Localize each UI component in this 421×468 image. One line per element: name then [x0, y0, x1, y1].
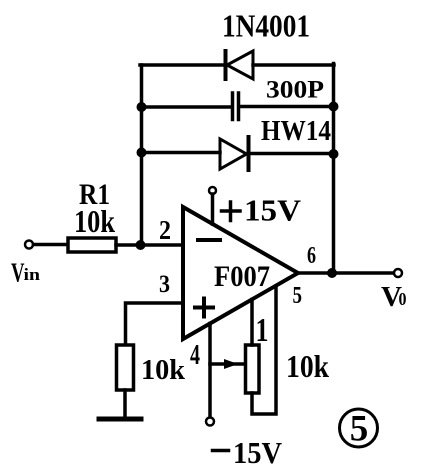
svg-text:15V: 15V	[244, 193, 302, 228]
svg-text:1: 1	[256, 312, 269, 349]
svg-text:6: 6	[307, 243, 316, 269]
svg-text:3: 3	[159, 271, 170, 298]
svg-text:5: 5	[293, 283, 303, 309]
svg-text:5: 5	[350, 409, 369, 450]
svg-text:10k: 10k	[286, 348, 329, 384]
svg-text:F007: F007	[214, 260, 270, 293]
svg-text:15V: 15V	[233, 435, 283, 468]
svg-text:300P: 300P	[266, 77, 324, 104]
svg-text:in: in	[24, 265, 41, 284]
svg-text:4: 4	[190, 340, 200, 371]
svg-text:10k: 10k	[74, 203, 115, 239]
svg-text:1N4001: 1N4001	[222, 8, 310, 44]
svg-text:HW14: HW14	[261, 115, 331, 147]
svg-text:2: 2	[159, 215, 171, 245]
svg-text:10k: 10k	[141, 354, 186, 386]
svg-text:0: 0	[399, 289, 407, 309]
